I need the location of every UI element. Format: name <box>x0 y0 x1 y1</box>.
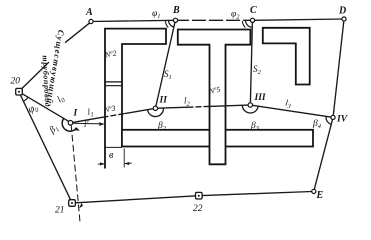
svg-text:l3: l3 <box>284 98 292 111</box>
svg-text:β4: β4 <box>312 119 322 130</box>
building long block bottom-left extension <box>106 146 122 148</box>
node II <box>153 106 157 110</box>
svg-text:22: 22 <box>193 204 203 214</box>
svg-text:II: II <box>159 96 168 106</box>
wire dashed ray from I down <box>71 125 80 222</box>
svg-text:D: D <box>338 6 346 17</box>
angle arc phi2 outer fragment at C <box>242 21 245 27</box>
building long block <box>122 130 313 147</box>
svg-text:φ1: φ1 <box>152 9 161 20</box>
svg-text:Nº3: Nº3 <box>102 104 116 115</box>
svg-text:21: 21 <box>55 206 65 216</box>
wire A-B top line <box>91 20 176 21</box>
label pipeline text line1 <box>45 29 67 105</box>
angle arc phi0 at 20 <box>23 97 28 101</box>
svg-text:в: в <box>109 150 114 161</box>
svg-text:φ2: φ2 <box>231 10 240 21</box>
node B <box>173 18 177 22</box>
node 20 square <box>16 88 23 95</box>
label l3 <box>284 98 292 111</box>
svg-text:β1: β1 <box>47 123 61 137</box>
dimension extension line at x=124.2 <box>123 149 125 168</box>
wire B-C top line dashed <box>176 19 253 21</box>
arrow l-prime from I <box>73 122 105 126</box>
svg-text:S2: S2 <box>253 64 262 76</box>
svg-text:l1: l1 <box>87 106 95 119</box>
svg-text:B: B <box>172 5 180 16</box>
building No2/No3 left block <box>105 29 166 169</box>
label phi0 <box>27 102 41 117</box>
wire l0 20-I <box>22 94 69 122</box>
wire pipeline 20-A <box>22 23 89 88</box>
node E <box>312 189 316 193</box>
node 21 square <box>69 200 76 207</box>
node C <box>250 18 254 22</box>
angle arc beta2 at II <box>148 108 164 117</box>
svg-text:IV: IV <box>336 115 348 125</box>
node III <box>248 103 252 107</box>
label beta1 <box>47 123 61 137</box>
svg-text:трубопровод: трубопровод <box>41 55 53 107</box>
angle arc phi1 at B <box>169 20 175 27</box>
node A <box>89 19 93 23</box>
node I <box>68 121 73 126</box>
angle arc phi2 at C <box>246 20 253 27</box>
wire l1 I-II <box>73 117 103 122</box>
wire 20-21 <box>20 95 70 200</box>
angle arc beta1 at I with arrow <box>62 118 76 131</box>
wire IV-D <box>333 21 344 115</box>
svg-text:l2: l2 <box>184 96 191 108</box>
label l1 <box>87 106 95 119</box>
label No3 <box>102 104 116 115</box>
angle arc phi1 outer fragment at B <box>165 21 168 27</box>
label pipeline text line2 <box>41 55 53 107</box>
building right corner block <box>263 28 310 85</box>
dimension line with arrows for 'v' <box>98 162 132 166</box>
wire S2 C-III <box>250 23 252 103</box>
building divider double line <box>105 82 122 86</box>
node D <box>342 17 346 21</box>
svg-text:20: 20 <box>11 77 21 87</box>
svg-text:S1: S1 <box>164 69 172 81</box>
label l0 <box>55 92 67 106</box>
wire l3 III-IV <box>253 105 331 117</box>
svg-text:C: C <box>250 5 257 16</box>
wire E-IV <box>314 120 332 190</box>
arrowhead on dashed ray near 21 <box>79 203 83 208</box>
svg-text:E: E <box>316 190 324 201</box>
wire l2 II-III <box>158 107 188 108</box>
svg-text:Nº2: Nº2 <box>103 49 117 60</box>
svg-text:A: A <box>85 7 93 18</box>
label No2 <box>103 49 117 60</box>
svg-text:III: III <box>254 93 266 103</box>
svg-text:β3: β3 <box>250 121 260 132</box>
wire baseline 21-22-E <box>76 192 312 203</box>
angle arc beta3 at III <box>242 105 258 113</box>
node 22 square <box>196 192 203 199</box>
svg-text:I: I <box>73 109 78 119</box>
wire C-D top line <box>253 19 345 20</box>
wire S1 B-II <box>156 23 175 107</box>
angle arc beta4 at IV <box>326 116 331 124</box>
label No5 <box>207 85 221 96</box>
node IV <box>331 115 335 119</box>
building No5 T block <box>178 30 251 165</box>
svg-text:β2: β2 <box>157 121 167 132</box>
